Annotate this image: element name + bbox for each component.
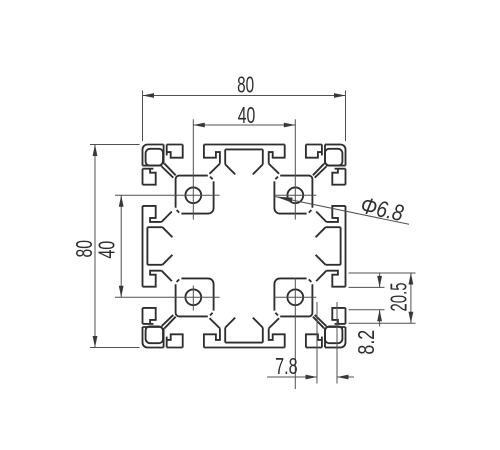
leader and label diameter 6.8 [276,193,410,226]
centerline top-left vertical [192,119,194,219]
svg-text:7.8: 7.8 [275,355,297,380]
dimension 80 top width [143,72,346,141]
dimension linework [72,72,415,389]
hole bottom-right (diam 6.8) [287,289,303,305]
profile outer face left [142,150,144,343]
T-slot left 2 [143,271,174,327]
profile outer face right [345,150,347,343]
centerline top-left horizontal [115,194,220,196]
dimension 8.2 slot opening [349,273,385,355]
corner arc top-left [143,145,148,150]
corner arc bottom-right [341,343,346,348]
svg-text:40: 40 [95,241,120,259]
dimension 20.5 slot face width [349,273,416,323]
central cavity arm left [147,227,172,265]
core block bottom-right [274,278,312,316]
corner screw channel top-right [325,149,342,166]
core block top-right [274,176,312,214]
centerline bottom-left vertical [192,286,194,311]
svg-text:20.5: 20.5 [386,283,412,312]
dimension 40 left slot spacing [95,195,124,297]
dimension 40 top slot spacing [193,103,295,129]
corner screw channel bottom-left [146,326,163,343]
hole bottom-left (diam 6.8) [185,289,201,305]
T-slot left 1 [143,166,174,222]
dimension 7.8 bottom lip [267,302,354,384]
core block top-left [176,176,214,214]
profile outer face bottom [148,347,341,349]
svg-text:Φ6.8: Φ6.8 [358,193,405,226]
dimension 80 left height [72,145,139,348]
centerline bottom-right vertical [294,278,296,390]
svg-text:40: 40 [238,103,256,129]
corner screw channel bottom-right [325,326,342,343]
T-slot bottom 2 [269,317,325,348]
core block bottom-left [176,278,214,316]
corner arc bottom-left [143,343,148,348]
central cavity arm top [225,149,263,174]
centerline top-right horizontal [274,194,316,196]
hole top-right (diam 6.8) [287,187,303,203]
profile outer face top [148,144,341,146]
T-slot right 2 [315,271,346,327]
T-slot top 2 [269,145,325,176]
central cavity arm right [316,227,341,265]
T-slot top 1 [164,145,220,176]
T-slot bottom 1 [164,317,220,348]
centerline bottom-left horizontal [115,296,220,298]
corner arc top-right [341,145,346,150]
centerline bottom-right horizontal [274,296,316,298]
hole top-left (diam 6.8) [185,187,201,203]
centerline top-right vertical [294,119,296,219]
central cavity arm bottom [225,318,263,343]
aluminium profile cross-section outline [143,145,346,348]
svg-text:80: 80 [237,72,254,98]
svg-text:8.2: 8.2 [354,330,380,355]
corner screw channel top-left [146,149,163,166]
T-slot right 1 [315,166,346,222]
